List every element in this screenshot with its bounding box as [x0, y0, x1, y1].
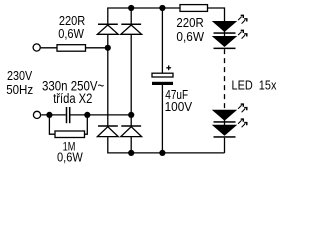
- wire right bridge column (D2 anode - node B - D4 cathode): [130, 34, 132, 126]
- LED DL2 bar: [214, 48, 236, 50]
- wire R1 to node A: [86, 47, 109, 49]
- wire C2 to bottom rail: [161, 85, 163, 153]
- LED DL4 triangle: [214, 125, 236, 134]
- diode D3 bar: [98, 125, 118, 127]
- capacitor C1 330n right plate: [69, 107, 71, 123]
- wire J2 to C1: [41, 114, 66, 116]
- svg-text:LED 15x: LED 15x: [232, 77, 277, 92]
- junction dot bottom rail / D4: [128, 150, 134, 156]
- diode D2 triangle: [121, 25, 142, 34]
- junction dot top rail / C2: [159, 5, 165, 11]
- diode D3 triangle: [97, 127, 118, 137]
- wire J1 to R1: [41, 47, 57, 49]
- LED DL2 triangle: [214, 37, 236, 47]
- wire D4 anode to bottom rail: [130, 137, 132, 153]
- terminal J1 (line input top): [33, 44, 40, 51]
- capacitor C2 47uF plus sign: [166, 67, 171, 69]
- wire R3 right leg: [85, 115, 88, 134]
- wire DL1 to DL2: [224, 31, 226, 37]
- junction dot J2 / C1 / R3: [46, 112, 52, 118]
- resistor R2 220R body: [180, 5, 208, 12]
- svg-text:0,6W: 0,6W: [176, 29, 204, 44]
- junction node A: [105, 45, 111, 51]
- LED DL2 light arrows: [238, 30, 247, 38]
- svg-text:0,6W: 0,6W: [57, 149, 83, 164]
- wire DL4 to bottom rail: [224, 138, 226, 153]
- LED DL3 bar: [214, 121, 236, 123]
- svg-text:0,6W: 0,6W: [58, 26, 84, 41]
- wire D2 cathode to top rail: [130, 8, 132, 24]
- wire C1 to node B: [70, 114, 131, 116]
- wire DL3 to DL4: [224, 120, 226, 126]
- wire R3 left leg: [49, 115, 55, 134]
- LED DL1 triangle: [214, 22, 236, 32]
- diode D1 triangle: [97, 25, 118, 34]
- diode D4 triangle: [121, 127, 142, 137]
- terminal J2 (line input bottom): [33, 111, 40, 118]
- LED DL4 light arrows: [238, 119, 247, 127]
- capacitor C2 47uF top plate: [152, 73, 173, 77]
- junction dot bottom rail / C2: [159, 150, 165, 156]
- junction dot top rail / D2: [128, 5, 134, 11]
- capacitor C2 47uF bottom plate: [152, 82, 173, 85]
- resistor R3 1M body: [55, 131, 85, 138]
- svg-text:třída X2: třída X2: [53, 91, 92, 106]
- junction dot C1 / R3 / node B wire: [84, 112, 90, 118]
- wire D3 anode to bottom rail: [108, 137, 225, 153]
- svg-text:50Hz: 50Hz: [6, 82, 33, 97]
- LED DL4 bar: [214, 136, 236, 138]
- wire top rail: [108, 8, 180, 24]
- svg-text:220R: 220R: [176, 16, 203, 31]
- capacitor C1 330n left plate: [66, 107, 68, 123]
- LED DL1 bar: [214, 32, 236, 34]
- wire R2 to LED string top: [208, 8, 225, 22]
- wire top rail to C2: [161, 8, 163, 73]
- diode D1 bar: [98, 23, 118, 25]
- resistor R1 220R body: [57, 45, 86, 52]
- wire left bridge column (D1 anode - node A - D3 cathode): [107, 34, 109, 126]
- svg-text:230V: 230V: [7, 68, 32, 83]
- wire dashed LED string continuation: [224, 49, 226, 110]
- LED DL1 light arrows: [238, 15, 247, 23]
- svg-text:100V: 100V: [165, 99, 193, 114]
- junction node B: [128, 112, 134, 118]
- diode D4 bar: [121, 125, 141, 127]
- diode D2 bar: [121, 23, 141, 25]
- LED DL3 light arrows: [238, 104, 247, 112]
- LED DL3 triangle: [214, 110, 236, 120]
